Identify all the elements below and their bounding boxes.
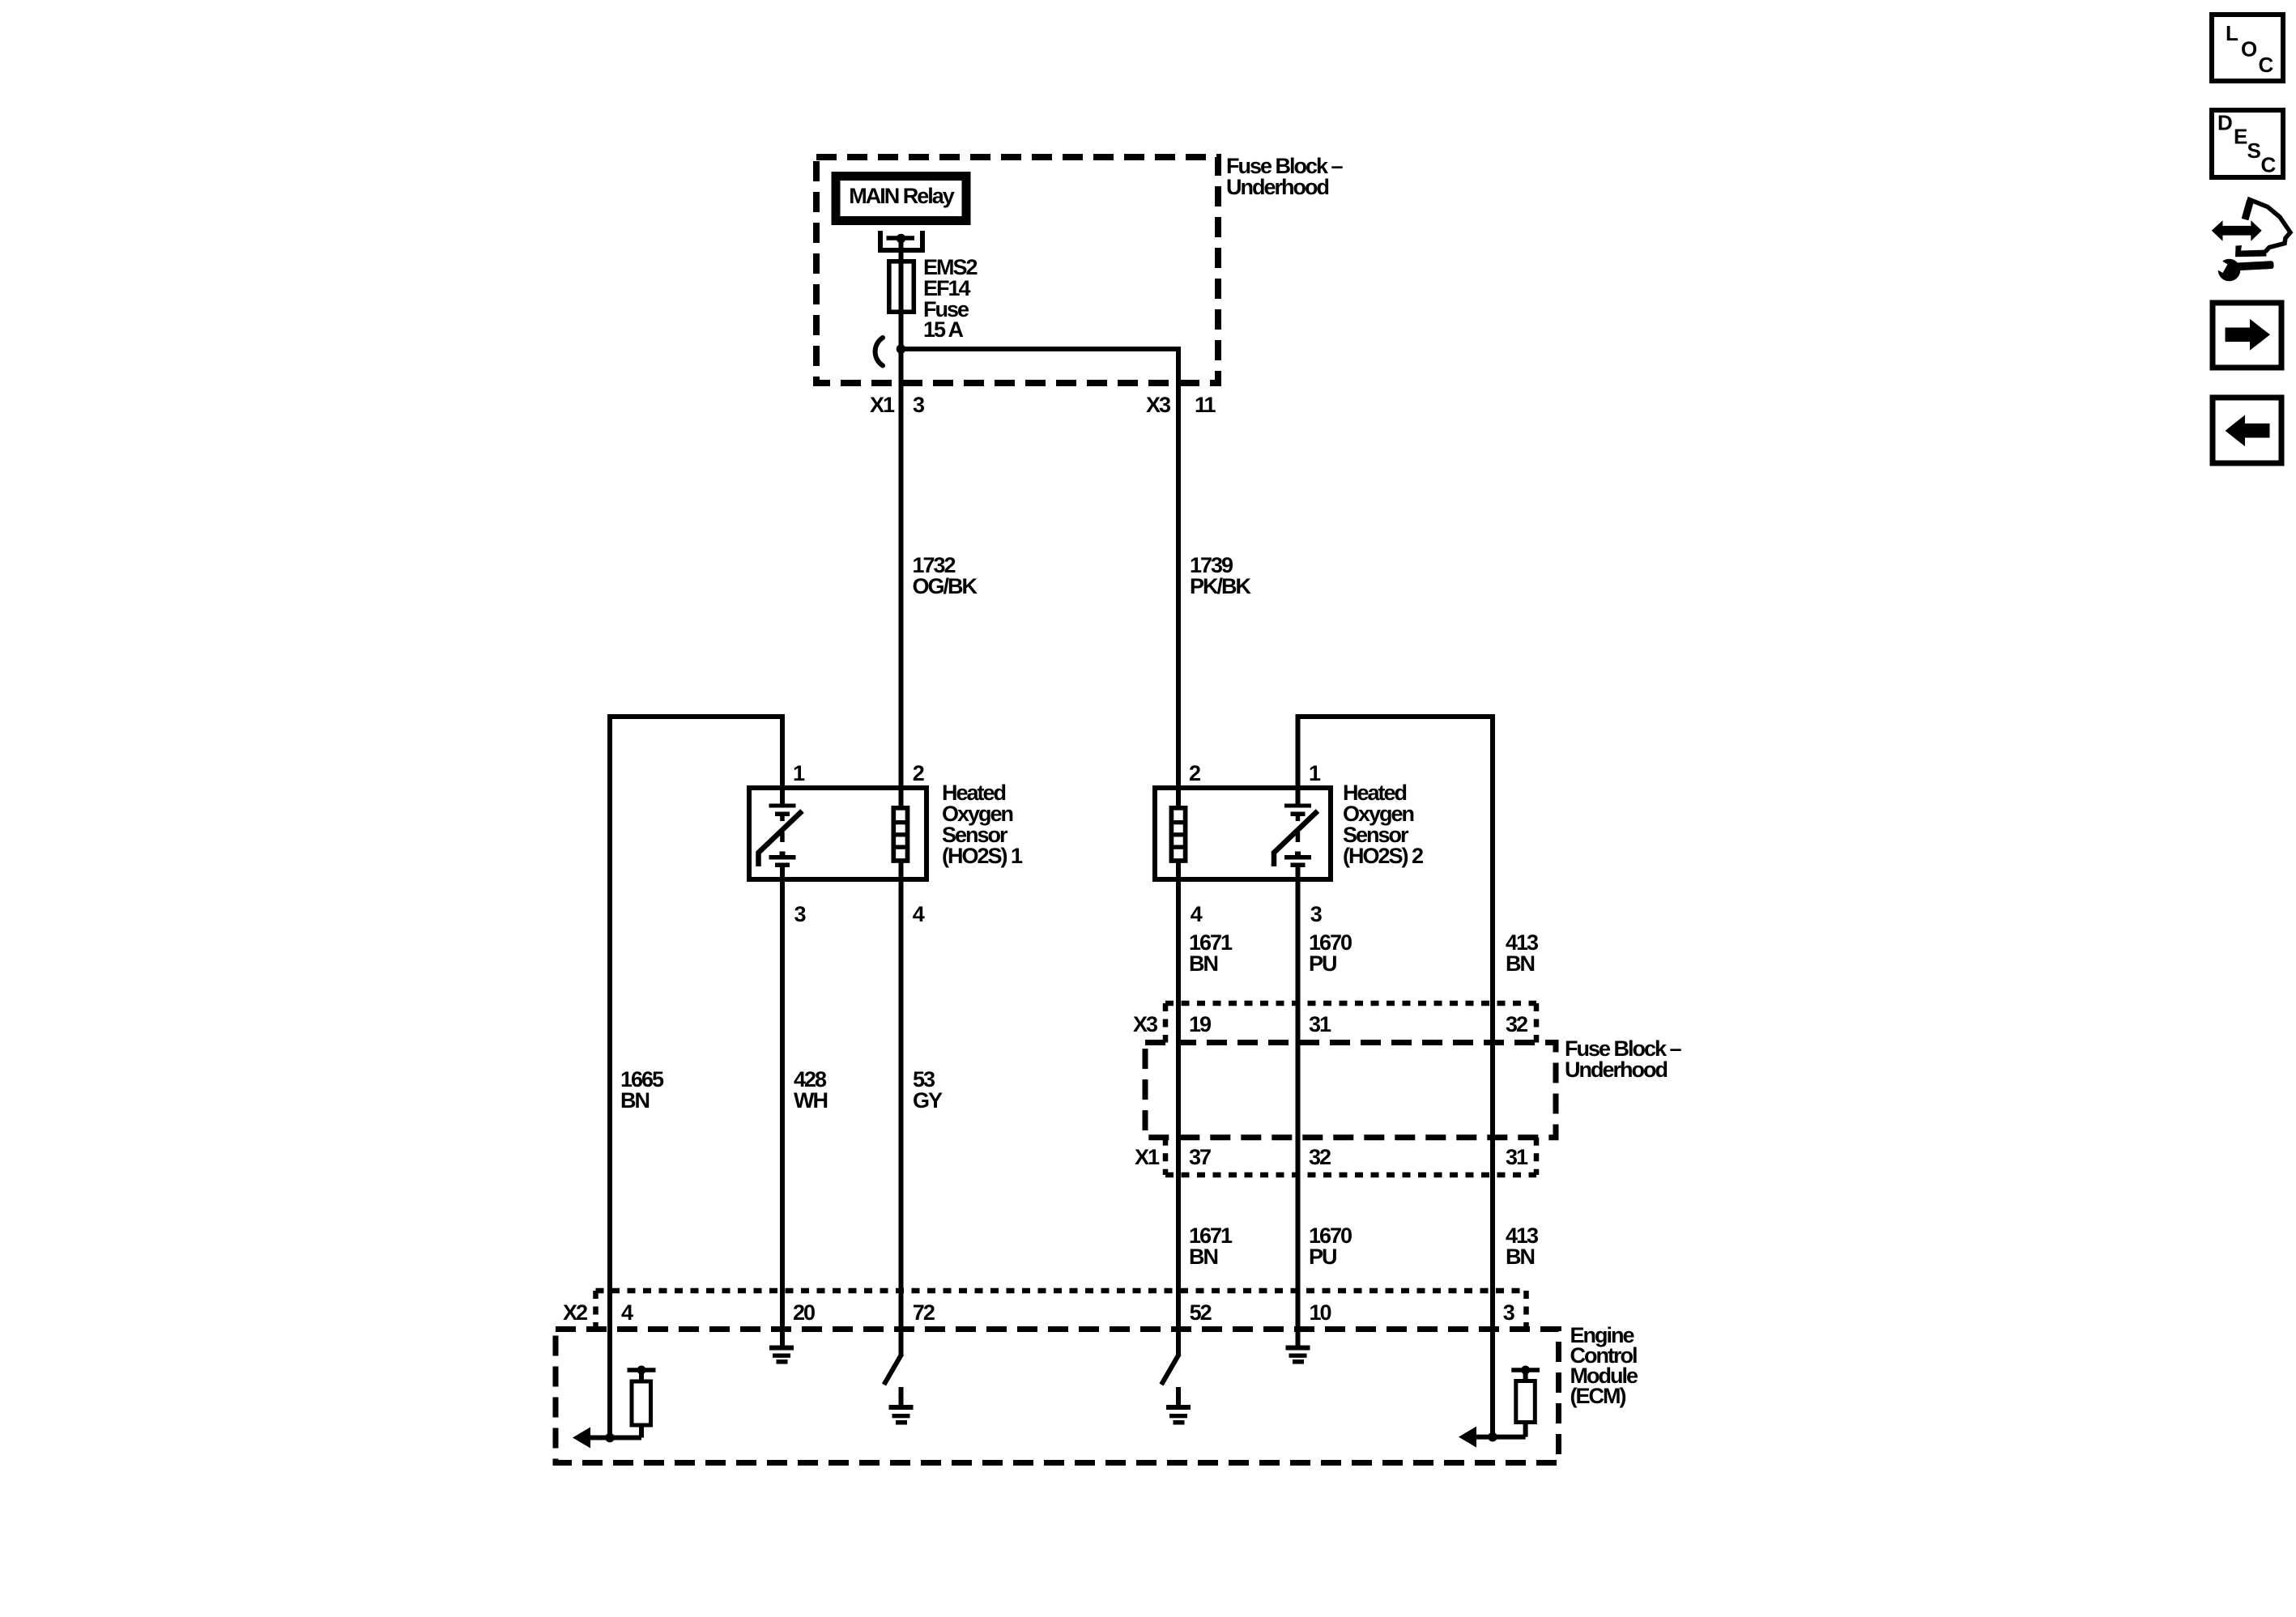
svg-text:52: 52 <box>1190 1300 1212 1325</box>
icon next arrow box <box>2213 303 2281 368</box>
switch (ECM pin 52) <box>1161 1354 1179 1385</box>
wire 413 BN loop (HO2S2 pin1 up, across, down to ECM pin 3) <box>1298 717 1493 1437</box>
node splice at fuse output <box>897 344 906 354</box>
svg-text:BN: BN <box>620 1088 649 1113</box>
svg-text:20: 20 <box>793 1300 815 1325</box>
HO2S2 box <box>1155 788 1331 879</box>
svg-text:OG/BK: OG/BK <box>913 574 978 598</box>
svg-text:X3: X3 <box>1133 1012 1158 1036</box>
node junction pin3 branch <box>1488 1432 1497 1442</box>
svg-text:72: 72 <box>913 1300 935 1325</box>
svg-text:32: 32 <box>1309 1145 1331 1169</box>
fuse block underhood dashed box (mid) <box>1145 1043 1556 1138</box>
svg-text:31: 31 <box>1309 1012 1331 1036</box>
resistor R2 (ECM pin 3) <box>1511 1366 1540 1437</box>
icon DESC box <box>2212 110 2283 177</box>
svg-text:D: D <box>2217 111 2233 135</box>
svg-text:MAIN Relay: MAIN Relay <box>849 184 955 208</box>
svg-text:19: 19 <box>1189 1012 1212 1036</box>
ground (ECM pin 20) <box>769 1346 794 1364</box>
svg-text:WH: WH <box>794 1088 827 1113</box>
ground after switch (pin 52) <box>1166 1387 1191 1425</box>
switch (ECM pin 72) <box>884 1354 902 1385</box>
relay MAIN Relay box <box>836 177 966 221</box>
node junction pin4 branch <box>605 1433 615 1443</box>
wire 1671 BN (HO2S2 pin4 through fuse block to ECM 52) <box>1176 862 1181 1356</box>
svg-text:11: 11 <box>1195 393 1216 417</box>
svg-text:(ECM): (ECM) <box>1570 1384 1626 1408</box>
connector X2 dotted band (ECM) <box>596 1288 1527 1294</box>
connector pass-through arc <box>875 338 883 366</box>
wire arrow out (left, pin3 branch) <box>1463 1435 1526 1440</box>
wire 1732 OG/BK (relay to HO2S1 heater pin2) <box>899 239 904 806</box>
resistor R1 (ECM pin 4) <box>628 1366 656 1438</box>
svg-text:X1: X1 <box>870 393 895 417</box>
connector X3 dotted band (fuse block mid) <box>1165 1001 1536 1006</box>
svg-text:1: 1 <box>1309 761 1321 785</box>
svg-text:3: 3 <box>1310 902 1323 926</box>
svg-text:BN: BN <box>1189 1245 1217 1269</box>
svg-text:Underhood: Underhood <box>1226 175 1328 199</box>
svg-text:Underhood: Underhood <box>1565 1057 1667 1082</box>
sensor element HO2S1 <box>759 804 803 868</box>
wire 1665 BN loop (HO2S1 pin1 up, across, down to ECM pin 4) <box>610 717 782 1438</box>
HO2S1 box <box>749 788 926 879</box>
svg-text:C: C <box>2259 53 2274 77</box>
svg-text:BN: BN <box>1189 951 1217 976</box>
svg-text:X1: X1 <box>1135 1145 1160 1169</box>
ECM dashed box <box>556 1330 1559 1463</box>
fuse block underhood dashed box (top) <box>816 157 1218 383</box>
svg-text:10: 10 <box>1310 1300 1331 1325</box>
wire relay to fuse <box>899 239 904 350</box>
connector X1 dotted band (fuse block mid) <box>1165 1172 1536 1178</box>
wire splice to X3-11 horizontal and 1739 PK/BK down <box>901 349 1179 806</box>
svg-text:O: O <box>2241 37 2257 62</box>
svg-text:1: 1 <box>793 761 805 785</box>
ground (ECM pin 10) <box>1286 1346 1310 1364</box>
svg-text:X3: X3 <box>1146 393 1171 417</box>
svg-text:2: 2 <box>913 761 924 785</box>
wire 53 GY (HO2S1 pin4 to ECM 72) <box>899 862 904 1356</box>
svg-text:PU: PU <box>1309 1245 1336 1269</box>
svg-text:3: 3 <box>913 393 925 417</box>
svg-text:E: E <box>2234 125 2247 149</box>
svg-text:GY: GY <box>913 1088 943 1113</box>
svg-text:S: S <box>2247 138 2261 163</box>
svg-text:(HO2S) 1: (HO2S) 1 <box>942 844 1023 868</box>
svg-text:32: 32 <box>1506 1012 1527 1036</box>
fuse EMS2 EF14 15A <box>889 262 914 312</box>
svg-text:2: 2 <box>1189 761 1200 785</box>
svg-text:C: C <box>2261 153 2277 177</box>
svg-text:4: 4 <box>1191 902 1203 926</box>
svg-text:X2: X2 <box>563 1300 587 1325</box>
svg-text:15 A: 15 A <box>923 317 964 342</box>
svg-text:PU: PU <box>1309 951 1336 976</box>
svg-text:(HO2S) 2: (HO2S) 2 <box>1343 844 1423 868</box>
icon LOC box <box>2212 15 2283 81</box>
svg-text:L: L <box>2226 21 2238 45</box>
wire 1670 PU (HO2S2 pin3 to ECM 10) <box>1296 867 1301 1346</box>
svg-text:BN: BN <box>1506 951 1534 976</box>
heater element HO2S2 <box>1171 808 1185 861</box>
icon back arrow box <box>2213 398 2281 463</box>
wire arrow out (left, pin4 branch) <box>577 1436 641 1440</box>
svg-text:4: 4 <box>621 1300 633 1325</box>
icon repair tool (part outline, double arrow, wrench) <box>2212 200 2290 282</box>
ground after switch (pin 72) <box>889 1387 914 1425</box>
svg-text:3: 3 <box>794 902 807 926</box>
svg-text:BN: BN <box>1506 1245 1534 1269</box>
svg-text:37: 37 <box>1189 1145 1211 1169</box>
svg-text:4: 4 <box>913 902 925 926</box>
svg-text:PK/BK: PK/BK <box>1190 574 1252 598</box>
svg-text:31: 31 <box>1506 1145 1528 1169</box>
relay contact bracket <box>880 231 922 250</box>
sensor element HO2S2 <box>1274 804 1318 868</box>
svg-text:3: 3 <box>1503 1300 1515 1325</box>
heater element HO2S1 <box>893 808 907 861</box>
wire 428 WH (HO2S1 pin3 to ECM 20) <box>780 867 785 1346</box>
